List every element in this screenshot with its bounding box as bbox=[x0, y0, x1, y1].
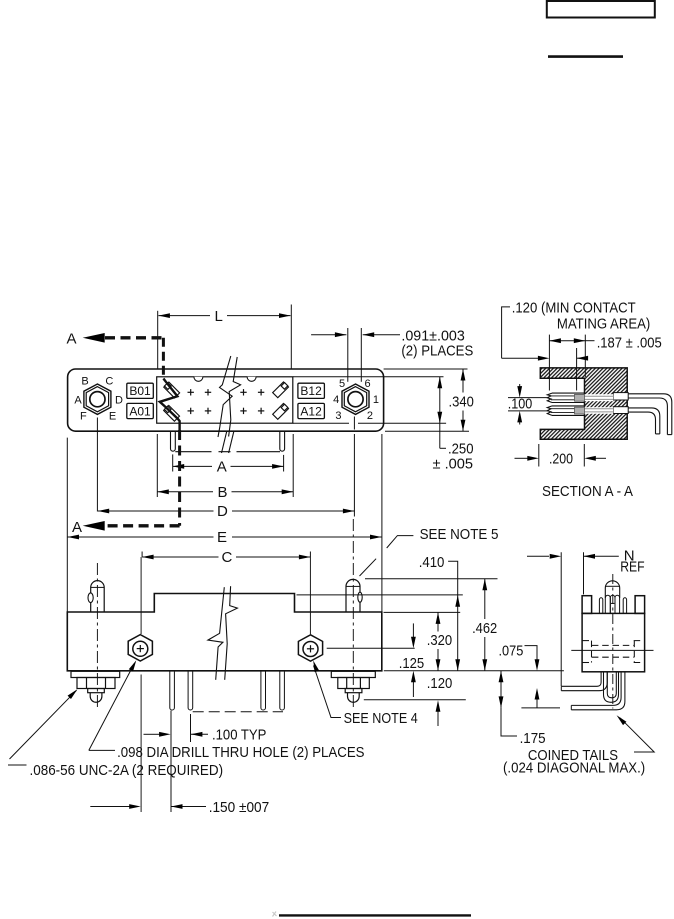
svg-text:E: E bbox=[217, 529, 227, 546]
svg-text:D: D bbox=[217, 503, 228, 520]
svg-text:L: L bbox=[215, 308, 223, 325]
svg-text:.125: .125 bbox=[399, 655, 425, 672]
svg-text:D: D bbox=[115, 394, 123, 406]
svg-text:5: 5 bbox=[339, 378, 345, 390]
svg-text:.175: .175 bbox=[520, 730, 546, 747]
svg-text:.100 TYP: .100 TYP bbox=[212, 726, 266, 743]
svg-text:SEE NOTE 4: SEE NOTE 4 bbox=[344, 710, 418, 727]
svg-text:E: E bbox=[109, 410, 116, 422]
svg-text:MATING AREA): MATING AREA) bbox=[557, 315, 650, 332]
svg-text:.100: .100 bbox=[508, 395, 533, 412]
svg-text:.098 DIA DRILL THRU HOLE (2) P: .098 DIA DRILL THRU HOLE (2) PLACES bbox=[117, 744, 364, 761]
svg-text:.075: .075 bbox=[499, 642, 524, 659]
svg-text:B: B bbox=[218, 484, 228, 501]
svg-text:A: A bbox=[74, 394, 82, 406]
svg-text:.120: .120 bbox=[427, 675, 453, 692]
svg-text:6: 6 bbox=[364, 378, 370, 390]
svg-text:.340: .340 bbox=[449, 393, 474, 410]
svg-text:SECTION A - A: SECTION A - A bbox=[542, 483, 633, 500]
svg-text:B12: B12 bbox=[300, 384, 322, 398]
svg-text:F: F bbox=[80, 410, 87, 422]
svg-text:.320: .320 bbox=[427, 632, 452, 649]
svg-text:SEE NOTE 5: SEE NOTE 5 bbox=[420, 526, 499, 543]
svg-text:3: 3 bbox=[335, 410, 341, 422]
svg-text:.187 ± .005: .187 ± .005 bbox=[597, 335, 662, 352]
svg-text:A12: A12 bbox=[300, 404, 322, 418]
svg-text:B: B bbox=[81, 375, 88, 387]
svg-text:4: 4 bbox=[333, 394, 339, 406]
svg-text:.462: .462 bbox=[472, 620, 497, 637]
svg-text:.150 ±007: .150 ±007 bbox=[209, 799, 270, 816]
svg-text:.120 (MIN CONTACT: .120 (MIN CONTACT bbox=[512, 299, 636, 316]
svg-text:A: A bbox=[217, 458, 227, 475]
svg-text:A: A bbox=[67, 331, 77, 348]
svg-text:B01: B01 bbox=[129, 384, 151, 398]
svg-text:(2) PLACES: (2) PLACES bbox=[401, 343, 473, 360]
svg-text:C: C bbox=[105, 375, 113, 387]
svg-text:.200: .200 bbox=[549, 451, 573, 468]
svg-text:2: 2 bbox=[367, 410, 373, 422]
svg-text:.086-56 UNC-2A (2 REQUIRED): .086-56 UNC-2A (2 REQUIRED) bbox=[30, 762, 224, 779]
svg-text:A: A bbox=[72, 519, 82, 536]
svg-text:C: C bbox=[222, 549, 233, 566]
svg-text:.410: .410 bbox=[419, 554, 445, 571]
svg-text:A01: A01 bbox=[129, 404, 151, 418]
svg-text:REF: REF bbox=[620, 558, 644, 575]
svg-text:1: 1 bbox=[373, 394, 379, 406]
svg-text:(.024 DIAGONAL MAX.): (.024 DIAGONAL MAX.) bbox=[503, 760, 645, 777]
svg-text:± .005: ± .005 bbox=[433, 456, 474, 473]
